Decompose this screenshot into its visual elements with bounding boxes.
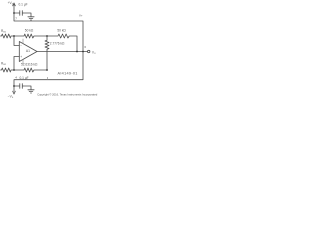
svg-text:2.7776 kΩ: 2.7776 kΩ bbox=[50, 41, 65, 45]
svg-text:RB2: RB2 bbox=[1, 62, 7, 67]
svg-text:−VS: −VS bbox=[8, 94, 14, 99]
svg-text:+VS: +VS bbox=[8, 1, 14, 6]
svg-text:7: 7 bbox=[15, 16, 17, 20]
svg-text:AI4149-01: AI4149-01 bbox=[58, 72, 78, 76]
svg-text:VO: VO bbox=[92, 50, 96, 55]
svg-text:52.6316 kΩ: 52.6316 kΩ bbox=[21, 63, 38, 67]
svg-text:+: + bbox=[20, 55, 22, 59]
svg-text:Copyright © 2016, Texas Instru: Copyright © 2016, Texas Instruments Inco… bbox=[37, 93, 98, 97]
svg-text:50 kΩ: 50 kΩ bbox=[25, 29, 34, 33]
svg-text:4: 4 bbox=[15, 76, 17, 80]
svg-text:50 kΩ: 50 kΩ bbox=[57, 29, 66, 33]
svg-text:6: 6 bbox=[84, 45, 86, 49]
svg-text:A1: A1 bbox=[26, 49, 30, 53]
svg-text:0.1 µF: 0.1 µF bbox=[20, 76, 29, 80]
svg-text:−: − bbox=[20, 44, 22, 48]
svg-text:V+: V+ bbox=[79, 14, 83, 18]
svg-text:RB1: RB1 bbox=[1, 29, 7, 34]
svg-text:0.1 µF: 0.1 µF bbox=[19, 3, 28, 7]
